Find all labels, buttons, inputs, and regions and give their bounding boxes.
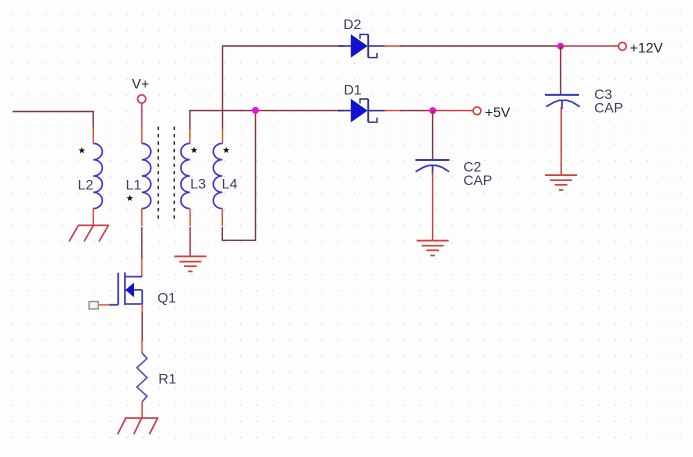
wire left input horizontal to L2 bbox=[13, 112, 94, 128]
svg-text:R1: R1 bbox=[158, 371, 176, 387]
ground earth under C3 bbox=[545, 175, 577, 190]
wire L4 top pin bbox=[222, 128, 224, 143]
wire L4 bottom pin bbox=[221, 209, 223, 226]
wire node C down to C3 bbox=[560, 46, 562, 95]
transformer core dashed lines bbox=[158, 127, 174, 220]
power port V+ bbox=[138, 95, 146, 103]
ground earth under C2 bbox=[417, 241, 449, 256]
wire Q1 source pin bbox=[141, 304, 143, 315]
wire D2 to node C bbox=[400, 45, 561, 47]
transistor Q1 bbox=[109, 272, 142, 305]
wire L2 top pin bbox=[92, 127, 94, 143]
wire L4 bottom loop to node A bbox=[222, 111, 255, 241]
svg-text:L4: L4 bbox=[222, 176, 238, 192]
node B junction dot bbox=[429, 107, 436, 114]
wire L1 to Q1 drain bbox=[141, 227, 143, 259]
inductor L4 bbox=[213, 143, 222, 208]
power port +12V bbox=[619, 42, 627, 50]
ground chassis under L2 bbox=[69, 225, 109, 241]
ground earth under L3 bbox=[174, 256, 206, 271]
ground chassis under R1 bbox=[118, 418, 159, 434]
svg-text:V+: V+ bbox=[132, 75, 150, 91]
resistor R1 bbox=[137, 353, 147, 402]
polarity star L2 bbox=[78, 147, 85, 153]
inductor L1 bbox=[142, 143, 151, 208]
svg-text:D1: D1 bbox=[344, 82, 362, 98]
wire R1 bottom to ground bbox=[141, 402, 143, 418]
node C junction dot bbox=[557, 43, 564, 50]
polarity star L4 bbox=[223, 147, 230, 153]
diode D1 bbox=[338, 99, 385, 123]
capacitor C3 bbox=[545, 95, 580, 109]
wire L1 top pin bbox=[141, 126, 143, 144]
wire node B to +5V port bbox=[433, 110, 473, 112]
wire L3 bottom pin bbox=[189, 209, 191, 226]
power port +5V bbox=[473, 107, 481, 115]
wire L3 bottom to ground bbox=[189, 227, 191, 256]
wire R1 top pin bbox=[141, 340, 143, 353]
svg-text:+5V: +5V bbox=[485, 104, 511, 120]
wire V+ to L1 bbox=[141, 103, 143, 126]
polarity star L1 bbox=[126, 195, 133, 201]
wire C3 bottom to ground bbox=[560, 107, 562, 175]
wire Q1 source to R1 bbox=[141, 312, 143, 341]
svg-text:L3: L3 bbox=[190, 176, 206, 192]
wire D1 to node B bbox=[400, 110, 433, 112]
svg-text:Q1: Q1 bbox=[157, 289, 176, 305]
wire L1 bottom pin bbox=[141, 209, 143, 226]
wire node C to +12V port bbox=[561, 45, 619, 47]
Q1 gate pin bbox=[98, 304, 110, 306]
wire node B down to C2 bbox=[432, 111, 434, 160]
svg-text:L2: L2 bbox=[78, 177, 94, 193]
inductor L3 bbox=[181, 143, 190, 208]
inductor L2 bbox=[93, 143, 102, 208]
polarity star L3 bbox=[191, 147, 198, 153]
svg-text:CAP: CAP bbox=[463, 172, 492, 188]
wire Q1 drain pin bbox=[141, 258, 143, 277]
node A junction dot bbox=[252, 107, 259, 114]
wire L3 top to +5V rail bbox=[190, 111, 344, 129]
Q1 gate terminal square bbox=[89, 302, 98, 309]
svg-text:L1: L1 bbox=[126, 177, 142, 193]
diode D2 bbox=[338, 34, 385, 58]
wire D2 out pin bbox=[385, 45, 402, 47]
wire L2 bottom pin bbox=[92, 209, 94, 226]
svg-text:+12V: +12V bbox=[630, 40, 664, 56]
svg-text:D2: D2 bbox=[343, 16, 361, 32]
wire D1 out pin bbox=[385, 110, 402, 112]
wire L4 top to D2 rail bbox=[223, 46, 344, 129]
svg-text:CAP: CAP bbox=[594, 100, 623, 116]
wire C2 bottom to ground bbox=[432, 172, 434, 241]
wire L3 top pin bbox=[189, 128, 191, 143]
Q1 body arrow bbox=[125, 283, 134, 298]
capacitor C2 bbox=[415, 160, 449, 174]
